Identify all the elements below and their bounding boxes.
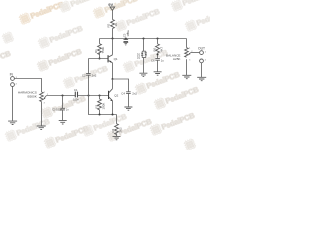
diode D2 <box>137 51 147 59</box>
wire balance pot bottom to ground <box>186 59 188 75</box>
resistor R4 <box>111 115 122 137</box>
capacitor C1 (series) <box>73 88 79 102</box>
wire Q1 collector down <box>112 63 114 79</box>
ground harmonics pot <box>37 126 46 129</box>
svg-text:2K2: 2K2 <box>118 127 122 133</box>
node R6-C6 junction <box>157 53 159 55</box>
potentiometer HARMONICS 500K <box>18 90 47 101</box>
wire balance wiper to OUT tip <box>191 52 200 54</box>
svg-text:R5: R5 <box>107 23 111 27</box>
svg-text:R6: R6 <box>152 47 156 51</box>
node input/C2 junction <box>88 95 90 97</box>
svg-text:3: 3 <box>44 102 45 104</box>
capacitor C6 <box>151 58 164 62</box>
node C5 rail junction <box>125 38 127 40</box>
wire rail <box>100 38 187 40</box>
wire branch to C4 <box>113 79 129 92</box>
wire rail to R1 <box>99 39 101 44</box>
wire IN tip to pot <box>15 79 42 93</box>
svg-text:4K7: 4K7 <box>159 46 163 52</box>
svg-text:C1: C1 <box>74 88 78 92</box>
svg-text:R4: R4 <box>111 128 115 132</box>
resistor R1 <box>94 44 105 55</box>
svg-text:3: 3 <box>189 59 190 61</box>
ground under C6 <box>154 72 162 75</box>
wire C4 to ground <box>128 93 130 106</box>
wire Q2 collector up to junction <box>112 79 114 89</box>
svg-text:1: 1 <box>189 47 190 49</box>
svg-text:C4: C4 <box>121 92 125 96</box>
svg-text:R2: R2 <box>94 104 98 108</box>
capacitor C5 <box>122 30 130 42</box>
node diode rail junction <box>143 38 145 40</box>
node R6 rail junction <box>157 38 159 40</box>
svg-text:100n: 100n <box>73 98 79 102</box>
svg-text:C6: C6 <box>151 58 155 62</box>
resistor R6 <box>152 39 163 59</box>
wire rail to balance pot <box>186 39 188 48</box>
potentiometer BALANCE 250K <box>166 48 191 62</box>
9V supply symbol <box>108 2 114 19</box>
resistor R5 <box>107 20 118 29</box>
wire C3 to ground <box>62 110 64 120</box>
node Q1 base junction <box>99 58 101 60</box>
svg-text:D2: D2 <box>137 56 141 60</box>
wire R1 to Q1 base line <box>99 53 101 59</box>
svg-text:B500K: B500K <box>28 94 38 98</box>
ground under C4 <box>124 107 132 110</box>
capacitor C4 <box>121 92 137 96</box>
svg-text:R1: R1 <box>94 49 98 53</box>
wire R5 to rail <box>112 29 114 39</box>
wire C2 column to bus <box>89 96 117 115</box>
svg-text:Q2: Q2 <box>114 94 118 98</box>
transistor Q1 <box>108 55 118 63</box>
svg-text:C2: C2 <box>82 73 86 77</box>
svg-text:100K: 100K <box>101 103 105 110</box>
svg-text:Q1: Q1 <box>114 57 118 61</box>
svg-text:1K: 1K <box>114 23 118 27</box>
capacitor C3 <box>52 96 69 112</box>
svg-text:2n2: 2n2 <box>92 73 97 77</box>
node C3 junction <box>62 95 64 97</box>
node R2 top <box>99 95 101 97</box>
wire Q1 base line <box>89 58 108 60</box>
wire Q1 emitter to rail <box>112 39 114 55</box>
ground under C5 <box>123 42 128 45</box>
ground balance pot <box>182 75 191 78</box>
jack OUT <box>198 47 207 63</box>
svg-text:9V: 9V <box>108 2 113 7</box>
resistor R2 <box>94 96 105 115</box>
node collectors junction <box>112 78 114 80</box>
ground IN jack <box>8 121 17 124</box>
svg-text:2n2: 2n2 <box>132 92 137 96</box>
svg-text:+: + <box>126 32 128 36</box>
wire signal line NB <box>46 95 108 97</box>
svg-text:1: 1 <box>44 92 45 94</box>
ground under R4 <box>113 136 121 139</box>
diode D1 <box>137 51 146 57</box>
wire 9V to R5 <box>112 10 114 20</box>
svg-text:C3 100p: C3 100p <box>52 108 62 112</box>
node R2 bus junction <box>99 114 101 116</box>
wire IN sleeve to ground <box>12 87 14 121</box>
ground under diodes <box>139 73 147 76</box>
transistor Q2 <box>108 89 119 101</box>
node rail-9V junction <box>112 38 114 40</box>
jack IN <box>10 73 18 87</box>
ground OUT jack <box>197 77 206 80</box>
svg-text:OUT: OUT <box>198 47 205 51</box>
svg-text:1u: 1u <box>161 58 164 62</box>
svg-text:750K: 750K <box>101 47 105 54</box>
wire OUT sleeve to ground <box>201 63 203 77</box>
wire Q2 emitter down to bus <box>112 101 114 115</box>
svg-text:A25K: A25K <box>173 57 182 61</box>
wire rail to diode pair <box>143 39 145 52</box>
ground under C3 <box>59 121 67 124</box>
capacitor C2 <box>82 59 97 96</box>
wire harmonics pot bottom to ground <box>41 102 43 126</box>
wire diodes to ground <box>143 58 145 73</box>
wire C6 to ground <box>157 60 159 71</box>
node Q2 emitter bus junction <box>112 114 114 116</box>
